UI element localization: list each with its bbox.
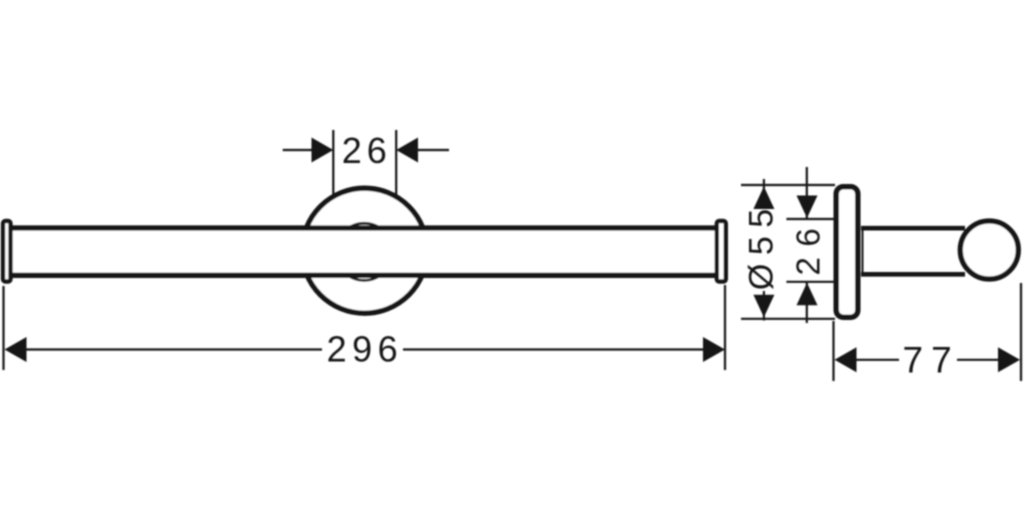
dim 77: left extension line — [832, 321, 834, 381]
dim 26 side: up arrowhead — [797, 283, 818, 306]
dim 26 side: vertical dimension line lower — [806, 281, 808, 323]
plate/arm joint line — [862, 226, 864, 277]
ball end (side view) — [960, 221, 1018, 279]
dim 296: left arrowhead — [5, 337, 27, 362]
dim 26 front: right arrowhead — [396, 138, 418, 163]
dim 77: right line segment — [957, 359, 1002, 361]
dim 296: right extension line — [724, 285, 726, 370]
dim O55: bottom tangent line — [741, 318, 835, 320]
arm bottom edge (side view) — [861, 272, 965, 277]
svg-text:Ø55: Ø55 — [743, 200, 781, 290]
dim 26 side: top tick line — [786, 218, 834, 220]
left end cap — [3, 221, 11, 282]
dim 26 front: left tail line — [283, 149, 312, 151]
svg-text:26: 26 — [790, 218, 827, 276]
dim O55: up arrowhead — [753, 187, 774, 210]
dim 296: right arrowhead — [703, 337, 725, 362]
dim 26 side: bottom tick line — [786, 281, 834, 283]
bar body fill — [11, 226, 716, 278]
dim O55: vertical dimension line upper — [763, 179, 765, 209]
dim 77: left line segment — [856, 359, 899, 361]
svg-text:77: 77 — [903, 340, 960, 381]
dim O55: top tangent line — [741, 184, 835, 186]
dim 296: left extension line — [2, 286, 4, 370]
right end cap — [717, 221, 726, 282]
svg-text:296: 296 — [327, 329, 404, 370]
dim 77: left arrowhead — [835, 347, 857, 372]
dim 26 front: right tail line — [418, 149, 449, 151]
dim 26 side: vertical dimension line upper — [806, 167, 808, 220]
wall plate (side view) — [836, 187, 858, 318]
svg-text:26: 26 — [342, 130, 392, 171]
wall plate circle (front view) — [302, 188, 427, 313]
bar top edge — [11, 225, 716, 230]
dim O55: down arrowhead — [753, 295, 774, 318]
dim 296: right line segment — [403, 348, 704, 350]
bar bottom edge — [11, 273, 716, 278]
dim 26 front: left extension line — [332, 130, 334, 195]
dim 77: right extension line — [1020, 283, 1022, 381]
dim 77: right arrowhead — [998, 347, 1020, 372]
inner mounting circle (front view) — [336, 223, 393, 280]
dim 26 front: right extension line — [395, 130, 397, 195]
dim 296: left line segment — [26, 348, 323, 350]
dim O55: vertical dimension line lower — [763, 291, 765, 321]
dim 26 side: down arrowhead — [797, 196, 818, 219]
dim 26 front: left arrowhead — [312, 138, 334, 163]
arm top edge (side view) — [861, 226, 965, 231]
